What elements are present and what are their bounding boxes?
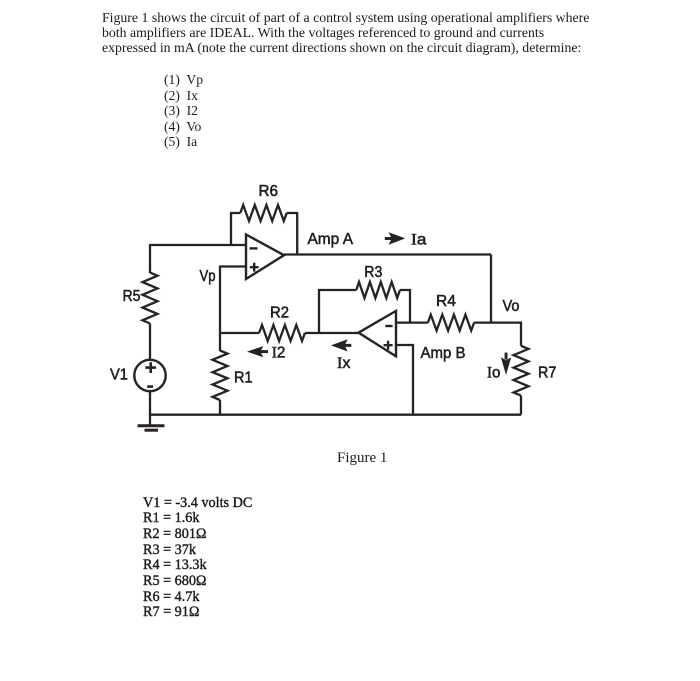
resistor R3	[356, 282, 400, 298]
resistor R6	[230, 205, 297, 221]
problem statement paragraph	[102, 10, 589, 55]
wire: R4 right to Vo node and corner	[474, 323, 521, 346]
figure caption	[337, 450, 387, 467]
wire: R5 bottom to V1 top	[149, 324, 151, 361]
current arrow Ia	[385, 232, 406, 245]
wire: Amp A output	[284, 253, 491, 255]
wire: Amp B non-inverting input down to rail	[396, 345, 413, 415]
wire: Vp node down to R1	[219, 333, 221, 351]
wire: Amp B inverting input to R4	[396, 321, 428, 323]
resistor R2	[259, 325, 305, 341]
wire: Amp A output down to Vo node	[490, 255, 492, 323]
question list	[164, 72, 203, 150]
voltage source V1	[134, 360, 165, 391]
svg-text:Amp B: Amp B	[421, 345, 466, 362]
wire: R6 right vertical to Amp A output	[296, 212, 298, 255]
wire: V1 bottom to ground	[149, 391, 151, 427]
wire: R2 right to Amp B output	[305, 332, 359, 334]
resistor R7	[514, 346, 529, 415]
component values list	[143, 496, 252, 622]
wire: bottom ground rail	[150, 414, 521, 416]
wire: left rail top + Amp A inverting input wire	[150, 245, 246, 273]
svg-text:Amp A: Amp A	[308, 231, 354, 248]
svg-text:Ia: Ia	[411, 232, 427, 249]
svg-text:R1: R1	[234, 370, 253, 387]
svg-text:Io: Io	[487, 365, 501, 382]
wire: R3 left vertical from Amp B output wire	[319, 290, 356, 333]
svg-text:R7: R7	[538, 365, 556, 382]
ground	[138, 426, 165, 431]
svg-text:I2: I2	[272, 345, 286, 362]
svg-text:R2: R2	[270, 305, 289, 322]
current arrow Ix	[331, 339, 351, 351]
svg-text:R6: R6	[259, 183, 279, 200]
wire: Vp node vertical and Amp A non-inverting input	[220, 267, 246, 334]
svg-text:Vo: Vo	[503, 298, 520, 315]
svg-text:R3: R3	[364, 264, 382, 281]
wire: R3 right vertical down to Amp B inverting input	[400, 290, 410, 323]
svg-text:R5: R5	[123, 288, 141, 305]
current arrow I2	[247, 346, 268, 357]
op-amp U1 Amp A	[246, 235, 284, 280]
resistor R5	[143, 273, 158, 324]
op-amp U2 Amp B	[359, 311, 397, 356]
svg-text:Vp: Vp	[200, 268, 216, 285]
wire: R6 left vertical	[230, 212, 232, 245]
svg-text:V1: V1	[110, 367, 128, 384]
current arrow Io	[501, 353, 511, 375]
resistor R1	[213, 351, 228, 415]
svg-text:Ix: Ix	[337, 355, 351, 372]
svg-text:R4: R4	[436, 293, 456, 310]
wire: R2 left lead from Vp node	[220, 332, 259, 334]
resistor R4	[428, 315, 474, 331]
